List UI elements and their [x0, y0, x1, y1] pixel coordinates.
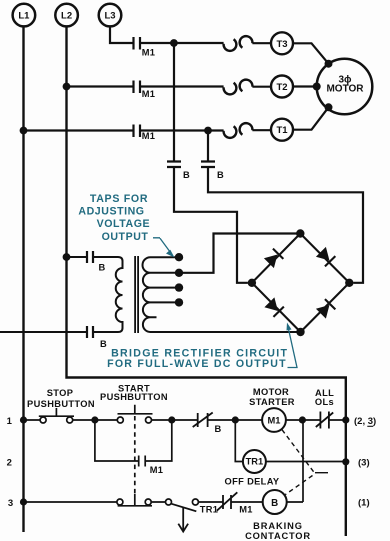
coil TR1 off delay — [225, 450, 280, 487]
node motor T2 — [313, 83, 321, 91]
svg-text:B: B — [271, 498, 278, 509]
svg-text:B: B — [217, 170, 224, 180]
svg-text:T2: T2 — [276, 82, 287, 93]
svg-text:FOR FULL-WAVE DC OUTPUT: FOR FULL-WAVE DC OUTPUT — [107, 358, 287, 370]
bridge callout arrow — [287, 323, 298, 368]
coil B braking contactor — [245, 490, 311, 541]
wire L1 rail — [22, 27, 24, 532]
svg-text:M1: M1 — [150, 465, 164, 475]
terminal L2 — [55, 4, 78, 27]
svg-text:OLs: OLs — [315, 397, 334, 407]
svg-text:OFF DELAY: OFF DELAY — [225, 477, 280, 487]
node L1 row 3 — [20, 127, 28, 135]
diode D4 bottom-right — [316, 299, 336, 319]
wire phase A down to contact B — [207, 131, 209, 162]
terminal T2 — [271, 76, 293, 98]
node rung1 B — [168, 416, 175, 423]
svg-text:B: B — [98, 263, 105, 273]
wire row 2 to T2 — [252, 86, 271, 88]
svg-text:TAPS FOR: TAPS FOR — [90, 193, 148, 205]
svg-text:3: 3 — [8, 498, 13, 509]
svg-text:B: B — [183, 170, 190, 180]
start pushbutton NO — [100, 384, 168, 424]
node rail rung 2 — [342, 458, 349, 465]
node tap 3 — [175, 283, 183, 291]
svg-text:T1: T1 — [276, 125, 288, 136]
svg-text:TR1: TR1 — [200, 505, 219, 515]
dashed linkage M1 to B — [282, 430, 328, 495]
node rail rung 1 — [20, 416, 27, 423]
taps callout arrow — [153, 238, 175, 258]
terminal T3 — [271, 32, 293, 54]
contact TR1 timed — [166, 499, 219, 515]
node rung1 A — [91, 416, 98, 423]
off-delay arrow — [178, 508, 188, 532]
wire L3 elbow to row 1 — [110, 27, 134, 43]
node tap 4 — [175, 298, 183, 306]
label bridge callout — [107, 348, 288, 371]
wire rung 3 — [24, 420, 304, 502]
bridge rectifier diamond — [252, 234, 349, 333]
svg-text:M1: M1 — [142, 89, 156, 99]
node L2 row 2 — [63, 83, 71, 91]
wire T2 to motor — [293, 85, 318, 87]
wire contact B right to bridge plus node — [208, 167, 363, 283]
node rail rung 3 — [20, 498, 27, 505]
svg-text:M1: M1 — [239, 505, 253, 515]
diode D3 bottom-left — [264, 297, 284, 317]
wire rung 2 TR1 branch — [235, 420, 345, 462]
transformer primary winding — [116, 257, 123, 332]
contact B right (DC to T1) — [201, 162, 224, 181]
wire phase C down to contact B — [173, 43, 175, 162]
label wire 2,3 — [354, 416, 376, 427]
svg-text:M1: M1 — [268, 416, 281, 426]
svg-text:CONTACTOR: CONTACTOR — [245, 531, 311, 541]
node bridge top — [296, 229, 304, 237]
svg-text:1: 1 — [7, 416, 13, 427]
svg-text:ADJUSTING: ADJUSTING — [78, 206, 144, 218]
contact M1 NC rung3 — [217, 492, 253, 514]
wire L2 to right control rail — [67, 27, 346, 536]
svg-text:STOP: STOP — [47, 388, 74, 398]
node tap 1 — [175, 253, 183, 261]
contact B NC rung1 — [193, 413, 222, 435]
node rung1 D — [299, 416, 306, 423]
wire tap 2 to bridge top — [179, 234, 300, 273]
svg-text:L3: L3 — [104, 11, 115, 22]
wire primary top lead — [67, 256, 119, 258]
transformer core — [135, 256, 138, 333]
svg-text:B: B — [214, 424, 221, 434]
svg-text:MOTOR: MOTOR — [253, 387, 289, 397]
wire row 1 to T3 — [252, 42, 271, 44]
svg-text:(1): (1) — [358, 498, 370, 509]
contact B transformer bottom — [87, 326, 107, 349]
diode D1 top-left — [264, 249, 284, 269]
contact all OLs NC — [315, 388, 334, 429]
motor M — [317, 59, 373, 115]
node tap 2 — [175, 269, 183, 277]
node rail rung 1 right — [342, 416, 349, 423]
svg-text:M1: M1 — [142, 131, 156, 141]
svg-text:L1: L1 — [18, 11, 30, 22]
contact B transformer top — [87, 251, 106, 273]
node bridge bottom — [296, 328, 304, 336]
node bridge left — [248, 279, 256, 287]
stop pushbutton — [27, 388, 95, 423]
transformer secondary winding with taps — [143, 257, 301, 332]
start pushbutton linkage dashed — [134, 416, 136, 494]
svg-text:(3): (3) — [358, 458, 370, 469]
contact M1 row 2 — [134, 81, 156, 100]
svg-text:2: 2 — [7, 458, 12, 469]
overload heater row 1 — [224, 36, 253, 51]
diode D2 top-right — [316, 247, 336, 267]
terminal T1 — [271, 119, 293, 141]
wire contact B left to bridge minus node — [174, 167, 248, 283]
node row 3 / phase A tap — [204, 127, 212, 135]
terminal L3 — [99, 4, 122, 27]
node bridge right — [345, 279, 353, 287]
svg-text:PUSHBUTTON: PUSHBUTTON — [100, 392, 168, 402]
node rung1 C — [232, 416, 239, 423]
svg-text:PUSHBUTTON: PUSHBUTTON — [27, 399, 95, 409]
wire rung 1 — [24, 419, 346, 421]
svg-text:BRAKING: BRAKING — [253, 521, 303, 531]
contact M1 holding — [139, 456, 164, 476]
svg-text:B: B — [100, 339, 107, 349]
svg-text:STARTER: STARTER — [249, 397, 295, 407]
wire row 2 — [67, 85, 224, 87]
contact B left (DC to T3) — [167, 162, 190, 181]
wire row 3 to T1 — [252, 129, 271, 131]
wire row 3 — [24, 129, 224, 131]
wire primary bottom lead — [0, 331, 118, 333]
svg-text:M1: M1 — [142, 48, 156, 58]
node L2 primary — [63, 253, 71, 261]
wire T3 to motor — [293, 43, 329, 63]
svg-text:T3: T3 — [276, 39, 287, 50]
wire row 1 — [140, 42, 224, 44]
contact M1 row 3 — [134, 125, 156, 142]
svg-text:(2, 3): (2, 3) — [354, 416, 376, 427]
svg-text:L2: L2 — [61, 11, 72, 22]
svg-text:VOLTAGE: VOLTAGE — [97, 218, 150, 230]
node motor T1 — [325, 103, 333, 111]
overload heater row 2 — [224, 80, 253, 95]
contact M1 row 1 — [134, 37, 156, 58]
start pushbutton NC contact rung3 — [117, 494, 152, 506]
coil M1 motor starter — [249, 387, 295, 432]
svg-text:OUTPUT: OUTPUT — [102, 231, 149, 243]
overload heater row 3 — [224, 123, 253, 138]
svg-text:TR1: TR1 — [246, 456, 264, 466]
svg-text:MOTOR: MOTOR — [326, 84, 364, 95]
node motor T3 — [325, 60, 333, 68]
holding contact branch — [95, 420, 172, 461]
node row 1 / phase C tap — [170, 39, 178, 47]
wire T1 to motor — [293, 107, 329, 129]
label taps callout — [78, 193, 150, 243]
terminal L1 — [13, 4, 36, 27]
